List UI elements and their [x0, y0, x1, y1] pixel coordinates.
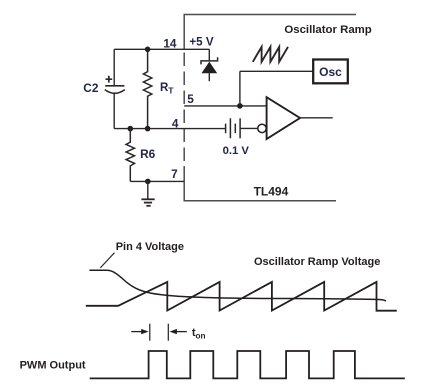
svg-text:PWM Output: PWM Output — [20, 360, 86, 372]
pin 4 voltage decay curve — [89, 270, 386, 301]
svg-text:+5 V: +5 V — [189, 35, 213, 48]
battery V1 0.1V — [226, 118, 241, 138]
wire osc horizontal — [240, 70, 313, 72]
Osc box — [313, 60, 348, 84]
arrow right into ton — [131, 331, 142, 333]
ground — [141, 181, 154, 205]
svg-text:C2: C2 — [83, 81, 99, 95]
resistor RT — [143, 49, 151, 128]
PWM output waveform — [90, 351, 405, 378]
node pin5/osc junction — [237, 103, 243, 109]
op-amp U2 comparator — [267, 97, 300, 139]
svg-text:R6: R6 — [140, 147, 156, 161]
svg-text:T: T — [168, 86, 174, 96]
svg-text:14: 14 — [163, 37, 177, 51]
svg-text:TL494: TL494 — [254, 185, 289, 199]
resistor R6 — [126, 129, 134, 182]
svg-text:Osc: Osc — [319, 65, 342, 79]
wire battery to bubble — [240, 127, 258, 129]
node C2/pin4 corner to R6 junction — [128, 126, 134, 132]
node pin14/RT junction — [145, 47, 151, 53]
wire pin14 horizontal — [114, 48, 209, 50]
svg-text:Pin 4 Voltage: Pin 4 Voltage — [116, 241, 184, 253]
capacitor C2 — [105, 76, 125, 94]
ton left tick — [149, 324, 151, 341]
wire osc vertical — [239, 71, 241, 106]
node ground junction — [145, 179, 151, 185]
svg-text:7: 7 — [171, 167, 178, 181]
node RT/pin4 junction — [145, 126, 151, 132]
IC U1 TL494 outline — [184, 15, 356, 201]
wire pin7 horizontal — [130, 180, 184, 182]
svg-text:Oscillator Ramp: Oscillator Ramp — [284, 24, 371, 36]
leader line — [100, 253, 114, 268]
wire comparator output — [300, 117, 333, 119]
oscillator ramp sawtooth waveform — [86, 282, 397, 311]
wire pin4 horizontal — [114, 128, 225, 130]
wire C2 top lead — [113, 49, 115, 85]
comparator U2 input bubble — [258, 124, 266, 132]
svg-text:Oscillator Ramp Voltage: Oscillator Ramp Voltage — [254, 256, 380, 268]
wire C2 bottom lead — [113, 94, 115, 129]
svg-text:on: on — [196, 331, 206, 340]
arrow left into ton — [176, 331, 187, 333]
ton right tick — [167, 324, 169, 341]
zener diode D1 — [201, 49, 218, 81]
wire pin5 horizontal — [184, 105, 266, 107]
svg-text:5: 5 — [187, 92, 194, 106]
sawtooth icon — [253, 47, 288, 62]
svg-text:0.1 V: 0.1 V — [223, 145, 250, 157]
